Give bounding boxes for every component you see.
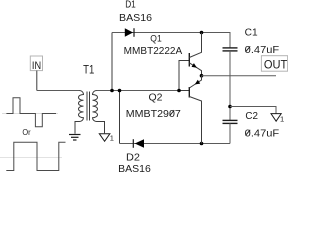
wire to ground triangle (230, 107, 276, 114)
transistor Q2 (PNP) base bar (188, 87, 190, 98)
node junction dot (base rail) (177, 89, 181, 93)
waveform 2 (square wave) (6, 142, 65, 170)
wire bottom rail (120, 143, 231, 145)
capacitor C1 (223, 47, 238, 49)
svg-text:1: 1 (110, 134, 114, 143)
node junction dot (110, 89, 114, 93)
slash in zero of C2 value (246, 130, 251, 136)
wire top rail (112, 33, 230, 48)
svg-text:C2: C2 (245, 111, 258, 122)
node junction dot (Q1 collector / top rail) (200, 31, 204, 35)
node junction dot (Q2 collector / bottom rail) (200, 142, 204, 146)
svg-text:D1: D1 (125, 0, 136, 11)
diode D2 (135, 139, 144, 148)
transistor Q1 emitter lead (189, 63, 201, 76)
svg-text:OUT: OUT (264, 60, 287, 72)
svg-text:1: 1 (280, 115, 284, 124)
svg-text:BAS16: BAS16 (118, 164, 151, 175)
svg-text:T1: T1 (83, 63, 94, 77)
transistor Q2 collector lead (189, 97, 201, 144)
svg-text:MMBT2222A: MMBT2222A (124, 46, 183, 57)
diode D1 (125, 28, 133, 37)
wire base rail (179, 61, 189, 91)
wire C1 bottom to C2 top (229, 51, 231, 121)
transistor Q1 emitter arrow (NPN) (192, 63, 197, 68)
ground triangle 1 (caps) (271, 114, 281, 122)
node OUT box (261, 56, 287, 71)
slash in zero of C1 value (246, 46, 251, 52)
wire IN to transformer primary (37, 90, 80, 92)
svg-text:Q1: Q1 (150, 33, 161, 43)
transistor Q1 collector lead (189, 33, 201, 58)
svg-text:D2: D2 (126, 152, 140, 164)
node junction dot (cap midpoint / ground branch) (228, 105, 232, 109)
svg-text:C1: C1 (245, 27, 258, 38)
node junction dot (118, 89, 122, 93)
wire D1 branch vertical (111, 33, 113, 91)
waveform 1 (bipolar pulse) (6, 98, 56, 127)
transistor Q1 (NPN) base bar (188, 53, 190, 67)
svg-text:0.47uF: 0.47uF (245, 44, 280, 56)
svg-text:0.47uF: 0.47uF (245, 128, 280, 140)
wire secondary to base rail (97, 90, 180, 92)
wire OUT (202, 75, 277, 77)
waveform 1 faint baseline (2, 113, 58, 115)
node IN box (30, 56, 42, 71)
node junction dot (emitters / OUT) (200, 74, 204, 78)
wire IN stem (36, 71, 38, 91)
ground (earth) (69, 134, 81, 136)
waveform 2 faint midline (0, 157, 62, 159)
transformer T1 secondary winding (93, 91, 105, 134)
wire C2 bottom lead (229, 123, 231, 143)
svg-text:BAS16: BAS16 (119, 13, 152, 24)
capacitor C2 (223, 119, 238, 121)
transistor Q2 emitter lead (189, 76, 201, 88)
svg-text:Or: Or (22, 127, 30, 137)
ground triangle 1 (transformer) (99, 134, 110, 142)
slash in zero of MMBT2907 (170, 110, 175, 116)
svg-text:IN: IN (32, 60, 41, 72)
transformer T1 primary winding (75, 91, 84, 134)
transformer core lines (86, 92, 88, 121)
svg-text:Q2: Q2 (149, 92, 163, 103)
svg-text:MMBT2907: MMBT2907 (126, 109, 181, 120)
wire D2 branch vertical (119, 91, 121, 144)
transistor Q2 emitter arrow (PNP) (195, 80, 201, 85)
